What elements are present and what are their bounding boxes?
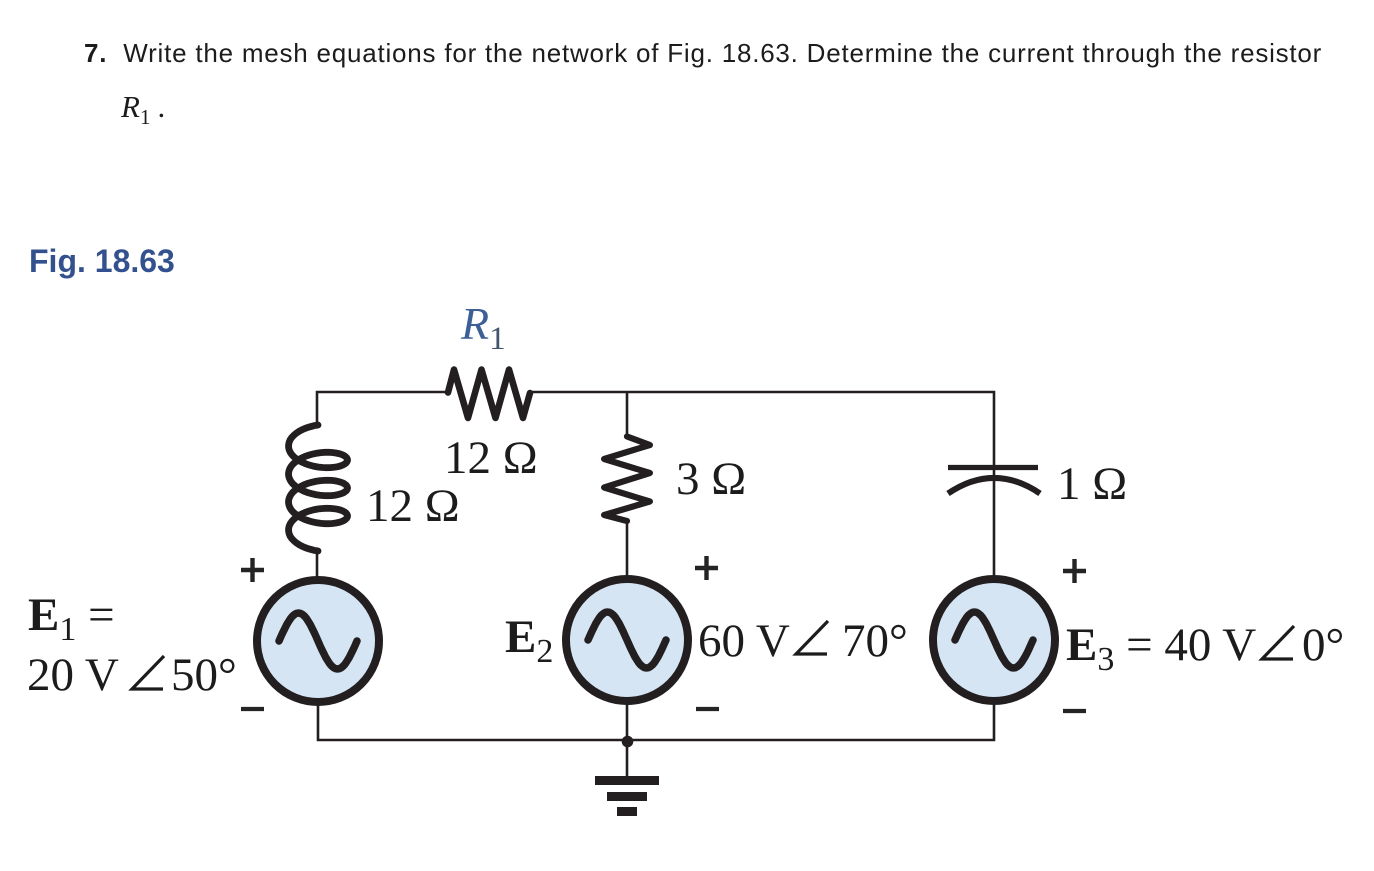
svg-text:0°: 0° <box>1302 619 1344 671</box>
svg-text:E2: E2 <box>505 611 553 670</box>
svg-text:20 V: 20 V <box>27 649 119 701</box>
wire: bottom rail from E1 to E3 <box>318 700 994 740</box>
source E1 circle <box>257 580 379 702</box>
wire: left branch inductor to E1 <box>316 548 319 582</box>
E3 angle symbol <box>1262 626 1294 659</box>
problem statement line 1 <box>84 38 1322 69</box>
E3 minus polarity <box>1063 709 1086 713</box>
figure caption Fig. 18.63 <box>29 243 175 280</box>
wire: top segment node A to right corner and down to capacitor/E3 <box>627 392 994 580</box>
wire: ground stub <box>626 741 629 778</box>
svg-text:12 Ω: 12 Ω <box>444 432 538 484</box>
svg-text:R1: R1 <box>460 298 506 357</box>
E2 minus polarity <box>696 707 719 711</box>
wire: top left segment <box>317 392 449 425</box>
svg-text:60 V: 60 V <box>698 615 790 667</box>
source E1 sine <box>279 613 357 669</box>
node A junction dot (ground node) <box>622 736 634 748</box>
capacitor C 1 ohm: curved bottom plate <box>948 478 1040 494</box>
source E2 circle <box>566 579 688 701</box>
svg-text:1 Ω: 1 Ω <box>1057 458 1127 510</box>
wire: middle branch upper <box>626 392 629 436</box>
source E3 circle <box>933 579 1055 701</box>
source E3 sine <box>955 612 1033 668</box>
problem statement line 2: R1. <box>121 89 165 130</box>
resistor R1 (horizontal zigzag) <box>448 370 530 418</box>
E2 plus polarity <box>695 556 718 580</box>
wire: E2 bottom stub <box>626 700 629 741</box>
inductor L (coil) 12 ohm <box>289 425 348 551</box>
svg-text:E1 =: E1 = <box>28 589 115 648</box>
E3 plus polarity <box>1063 559 1086 583</box>
svg-text:50°: 50° <box>171 649 237 701</box>
wire: middle branch lower (resistor to E2) <box>626 520 629 580</box>
svg-text:E3 = 40 V: E3 = 40 V <box>1066 619 1256 678</box>
E1 plus polarity <box>241 558 264 582</box>
E1 minus polarity <box>241 707 264 711</box>
svg-text:70°: 70° <box>842 615 908 667</box>
capacitor C 1 ohm: top plate <box>948 465 1038 470</box>
svg-text:12 Ω: 12 Ω <box>366 480 460 532</box>
E1 angle symbol <box>132 656 164 689</box>
source E2 sine <box>588 612 666 668</box>
resistor 3 ohm (vertical zigzag) <box>604 437 650 522</box>
ground symbol <box>595 776 659 816</box>
svg-text:3 Ω: 3 Ω <box>676 453 746 505</box>
wire: top right segment from R1 to node A <box>529 391 627 394</box>
E2 angle symbol <box>796 621 828 654</box>
